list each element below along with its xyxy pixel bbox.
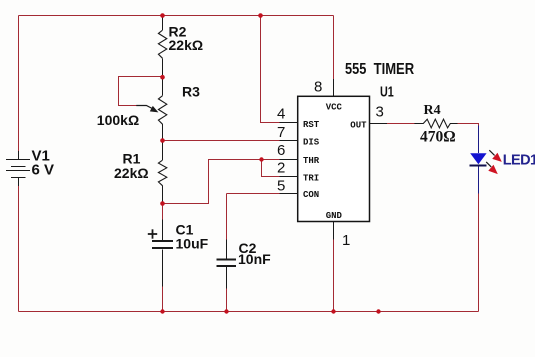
svg-text:RST: RST: [303, 120, 320, 130]
svg-text:THR: THR: [303, 156, 320, 166]
svg-text:TIMER: TIMER: [374, 61, 415, 78]
svg-text:6 V: 6 V: [32, 162, 55, 179]
svg-text:3: 3: [376, 103, 384, 120]
svg-text:8: 8: [314, 79, 322, 96]
svg-text:R3: R3: [182, 83, 200, 99]
svg-text:555: 555: [345, 61, 366, 78]
svg-text:LED1: LED1: [503, 153, 535, 169]
svg-text:1: 1: [342, 232, 350, 249]
svg-text:U1: U1: [380, 84, 394, 101]
svg-text:TRI: TRI: [303, 173, 319, 183]
svg-text:470Ω: 470Ω: [420, 129, 456, 146]
svg-text:2: 2: [277, 159, 285, 176]
svg-text:6: 6: [277, 142, 285, 159]
svg-text:22kΩ: 22kΩ: [169, 37, 204, 53]
svg-text:R4: R4: [424, 103, 441, 118]
svg-text:5: 5: [277, 177, 285, 194]
svg-text:OUT: OUT: [350, 120, 367, 130]
svg-text:10uF: 10uF: [176, 236, 209, 252]
svg-text:10nF: 10nF: [238, 251, 271, 267]
svg-text:GND: GND: [326, 211, 343, 221]
svg-text:22kΩ: 22kΩ: [114, 165, 149, 181]
svg-text:100kΩ: 100kΩ: [97, 112, 139, 128]
svg-text:7: 7: [277, 124, 285, 141]
svg-text:DIS: DIS: [303, 137, 320, 147]
svg-text:VCC: VCC: [326, 103, 343, 113]
svg-text:CON: CON: [303, 190, 319, 200]
svg-text:4: 4: [277, 106, 285, 123]
